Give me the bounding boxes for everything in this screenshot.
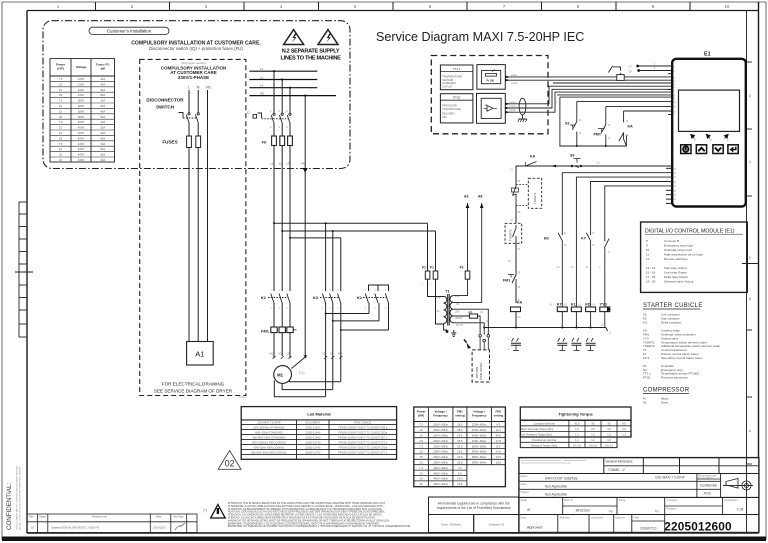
- svg-text:7.5: 7.5: [59, 120, 63, 124]
- supply bus labels: [260, 67, 264, 95]
- button down: [713, 145, 723, 154]
- svg-text:Overload motor Input: Overload motor Input: [664, 248, 692, 252]
- svg-text:Remote start/stop: Remote start/stop: [664, 257, 688, 261]
- svg-text:K1: K1: [261, 295, 267, 300]
- svg-text:K3: K3: [313, 295, 319, 300]
- power setting table: [414, 407, 506, 487]
- svg-text:400V 50Hz STANDARD: 400V 50Hz STANDARD: [255, 430, 283, 434]
- svg-text:50A: 50A: [100, 115, 105, 119]
- E1 display: [679, 90, 740, 131]
- svg-text:L1: L1: [260, 67, 264, 71]
- svg-text:19 - 20: 19 - 20: [646, 280, 656, 284]
- svg-text:40A: 40A: [100, 131, 105, 135]
- wire drops L1 L2 L3: [273, 71, 275, 113]
- svg-text:18.5: 18.5: [496, 461, 502, 465]
- svg-text:30.5: 30.5: [457, 461, 463, 465]
- svg-text:(C): (C): [480, 311, 484, 314]
- svg-text:10: 10: [725, 4, 730, 9]
- svg-text:DISCONNECTOR: DISCONNECTOR: [146, 98, 184, 103]
- svg-text:230V~50Hz: 230V~50Hz: [433, 444, 448, 448]
- title block texts: [521, 461, 586, 464]
- svg-text:230V~50Hz: 230V~50Hz: [433, 455, 448, 459]
- T1 primary bottom to ground: [444, 324, 448, 331]
- wires K3 bottom to motor terminals U2 V2 W2: [325, 303, 327, 397]
- svg-text:22050 12620: 22050 12620: [305, 425, 321, 429]
- svg-text:(*1): (*1): [299, 371, 304, 375]
- svg-text:green: green: [510, 100, 517, 104]
- svg-text:10: 10: [646, 248, 650, 252]
- svg-text:PE: PE: [302, 162, 306, 166]
- contactor K3: [313, 290, 341, 310]
- svg-text:0.5-1.6: 0.5-1.6: [589, 443, 598, 447]
- digital io module legend box: [641, 222, 748, 292]
- emergency contact on wire: [608, 66, 620, 78]
- svg-text:YY3: YY3: [600, 303, 607, 307]
- svg-text:8.5: 8.5: [496, 444, 500, 448]
- svg-text:Date: Date: [634, 515, 640, 519]
- svg-text:12: 12: [646, 257, 650, 261]
- svg-text:20: 20: [420, 482, 424, 486]
- svg-text:1.1: 1.1: [575, 438, 579, 442]
- E1 upper pin stubs: [668, 74, 672, 115]
- svg-text:Frequency: Frequency: [433, 414, 448, 418]
- svg-text:STARTER CUBICLE: STARTER CUBICLE: [643, 303, 703, 309]
- svg-text:A1: A1: [643, 401, 647, 405]
- svg-text:Designame:: Designame:: [725, 498, 739, 502]
- svg-text:Name: Name: [521, 474, 528, 478]
- svg-text:380-460V 60Hz REFLOODING: 380-460V 60Hz REFLOODING: [251, 450, 287, 454]
- cable shield: [519, 98, 526, 115]
- svg-text:Compact:: Compact:: [667, 498, 678, 502]
- svg-text:FP2/06-220/50-T-2/5CT TC-220/: FP2/06-220/50-T-2/5CT TC-220/537-273a: [339, 445, 388, 449]
- bus L2: [249, 79, 317, 81]
- svg-text:200V~50Hz: 200V~50Hz: [433, 439, 448, 443]
- svg-text:setting: setting: [494, 414, 504, 418]
- warning triangle 1: [284, 30, 304, 45]
- wire: [515, 241, 517, 272]
- svg-text:KA: KA: [628, 125, 634, 129]
- display arrows: [691, 134, 728, 138]
- svg-text:1.2: 1.2: [591, 433, 595, 437]
- fuses FU table: [50, 59, 115, 162]
- node A3 arrow: [466, 203, 470, 208]
- svg-text:TRANSDUCER: TRANSDUCER: [442, 107, 461, 111]
- wires K1 to FM1: [273, 303, 275, 327]
- option arrow: [467, 343, 472, 349]
- terminal marks: [273, 356, 343, 359]
- svg-text:16A: 16A: [100, 120, 105, 124]
- svg-text:230V: 230V: [78, 93, 85, 97]
- svg-text:10: 10: [59, 104, 63, 108]
- svg-text:2.5: 2.5: [591, 427, 595, 431]
- pressure transducer PT20: [440, 94, 473, 123]
- svg-text:15.5: 15.5: [496, 455, 502, 459]
- node junctions: [273, 70, 275, 72]
- button power: [681, 145, 691, 154]
- svg-text:M1: M1: [277, 373, 283, 378]
- svg-text:0.5-1.6: 0.5-1.6: [573, 443, 582, 447]
- svg-text:0.5-1.6: 0.5-1.6: [605, 443, 614, 447]
- temperature sensor TT1: [440, 65, 473, 90]
- svg-text:W: W: [527, 508, 530, 512]
- svg-text:Pressure transducer: Pressure transducer: [661, 376, 688, 380]
- svg-text:440V: 440V: [78, 153, 85, 157]
- svg-text:2.5mm²: 2.5mm²: [238, 395, 247, 399]
- svg-text:PDM CODICE: PDM CODICE: [355, 420, 372, 424]
- PT20 wires to E1: [505, 86, 672, 104]
- svg-text:460V~60Hz: 460V~60Hz: [433, 466, 448, 470]
- node L N PE labels: [188, 86, 211, 90]
- branch wires to delta contactor and control: [274, 222, 428, 224]
- svg-text:V1: V1: [279, 352, 283, 356]
- svg-text:400V: 400V: [78, 126, 85, 130]
- svg-text:7.5: 7.5: [458, 466, 462, 470]
- svg-text:380V~60Hz: 380V~60Hz: [472, 461, 487, 465]
- fuse FU-L3: [288, 136, 293, 146]
- svg-text:AIR: AIR: [442, 115, 447, 119]
- wire S3 line to E1: [516, 165, 672, 167]
- svg-text:15 - 16: 15 - 16: [646, 271, 656, 275]
- svg-text:requirements of the List of Pr: requirements of the List of Prohibited S…: [437, 506, 511, 510]
- svg-text:TSHHT2: TSHHT2: [509, 229, 513, 241]
- svg-text:Resistors Torque [Nm]: Resistors Torque [Nm]: [531, 443, 557, 447]
- wire drop PE: [304, 96, 306, 357]
- svg-text:400V: 400V: [78, 131, 85, 135]
- svg-text:18.0: 18.0: [457, 450, 463, 454]
- svg-text:440V: 440V: [78, 142, 85, 146]
- svg-text:8.5: 8.5: [458, 471, 462, 475]
- svg-text:Contactor terminal: Contactor terminal: [533, 422, 555, 426]
- bottom black bar: [2, 537, 766, 542]
- svg-text:200V~50Hz: 200V~50Hz: [433, 423, 448, 427]
- tap 15V to F3: [453, 279, 467, 296]
- svg-text:Emergency stop Input: Emergency stop Input: [664, 244, 693, 248]
- button enter: [728, 145, 738, 154]
- svg-text:Pt 100: Pt 100: [487, 79, 495, 82]
- svg-text:1.5: 1.5: [575, 427, 579, 431]
- svg-text:15: 15: [420, 477, 424, 481]
- svg-text:IQ: IQ: [247, 111, 250, 115]
- svg-text:16A: 16A: [100, 99, 105, 103]
- svg-text:FM1: FM1: [261, 329, 270, 334]
- svg-text:10: 10: [420, 428, 424, 432]
- TT1 symbol box: [477, 65, 505, 90]
- svg-text:20: 20: [59, 136, 63, 140]
- svg-text:Rev: Rev: [29, 515, 34, 519]
- svg-text:7.5: 7.5: [419, 466, 423, 470]
- svg-text:L1: L1: [271, 162, 275, 166]
- svg-text:11: 11: [646, 253, 649, 257]
- svg-text:Scale: Scale: [521, 498, 528, 502]
- svg-text:7.5: 7.5: [59, 77, 63, 81]
- svg-text:10: 10: [59, 126, 63, 130]
- wire L: [188, 90, 190, 113]
- svg-text:220V~60Hz: 220V~60Hz: [472, 423, 487, 427]
- svg-text:Date: Date: [156, 515, 162, 519]
- svg-text:200V~50Hz: 200V~50Hz: [433, 434, 448, 438]
- svg-text:High-temperature air-oil Input: High-temperature air-oil Input: [664, 253, 703, 257]
- svg-text:LINES TO THE MACHINE: LINES TO THE MACHINE: [280, 56, 341, 62]
- svg-text:1.2: 1.2: [622, 433, 626, 437]
- svg-text:Frequency: Frequency: [472, 414, 487, 418]
- svg-text:460V~60Hz: 460V~60Hz: [433, 477, 448, 481]
- svg-text:15: 15: [59, 131, 63, 135]
- svg-text:Delta relay Output: Delta relay Output: [664, 275, 688, 279]
- svg-text:CONFIDENTIAL:: CONFIDENTIAL:: [6, 483, 13, 530]
- svg-text:KD: KD: [544, 237, 550, 241]
- svg-text:14.0: 14.0: [457, 477, 463, 481]
- svg-text:16A: 16A: [100, 142, 105, 146]
- svg-text:KL: KL: [571, 303, 577, 307]
- surge suppressor KY: [557, 338, 567, 351]
- svg-text:B: B: [749, 297, 751, 301]
- svg-text:OUTLET: OUTLET: [442, 84, 453, 88]
- svg-text:white: white: [511, 73, 518, 77]
- disconnector switch poles: [179, 113, 200, 123]
- svg-text:02: 02: [225, 459, 235, 469]
- svg-text:F1: F1: [430, 266, 434, 270]
- svg-text:400V 50Hz REFLOODING: 400V 50Hz REFLOODING: [253, 445, 284, 449]
- svg-text:58.0: 58.0: [457, 428, 463, 432]
- svg-text:TT1 1: TT1 1: [453, 67, 461, 71]
- svg-text:TSHHT1: TSHHT1: [533, 192, 537, 204]
- svg-text:0: 0: [749, 256, 751, 260]
- E1 lower pin stubs: [666, 168, 672, 203]
- svg-text:24.5: 24.5: [457, 455, 463, 459]
- svg-text:TANK DRAIN: TANK DRAIN: [479, 363, 483, 380]
- bus L3: [249, 87, 317, 89]
- fuse FU-L2: [280, 136, 285, 146]
- projection symbol: [723, 479, 753, 493]
- S3 PMT KA contact group: [560, 96, 672, 98]
- svg-text:17.5: 17.5: [496, 439, 502, 443]
- svg-text:K2: K2: [357, 295, 363, 300]
- motor loop wires: [289, 380, 340, 382]
- wires below fuses: [273, 146, 275, 292]
- svg-text:L: L: [188, 86, 190, 90]
- wire PE: [207, 90, 209, 342]
- svg-text:in mm 100.0: in mm 100.0: [698, 476, 713, 480]
- svg-text:PMT: PMT: [594, 133, 602, 137]
- motor M1: [274, 366, 292, 384]
- svg-text:CF: CF: [629, 69, 633, 73]
- surge suppressor KD: [586, 338, 596, 351]
- svg-text:230V: 230V: [78, 77, 85, 81]
- svg-text:380V~60Hz: 380V~60Hz: [472, 444, 487, 448]
- svg-text:40A: 40A: [100, 82, 105, 86]
- svg-text:230V: 230V: [78, 82, 85, 86]
- svg-text:KA: KA: [517, 301, 523, 305]
- svg-text:DIGITAL I/O CONTROL MODULE (E: DIGITAL I/O CONTROL MODULE (E1): [645, 229, 735, 235]
- PT20 symbol box: [477, 93, 506, 123]
- top ruler ticks: [96, 2, 691, 11]
- svg-text:1.5: 1.5: [607, 438, 611, 442]
- svg-text:80A: 80A: [100, 93, 105, 97]
- svg-text:22050 12650: 22050 12650: [305, 435, 321, 439]
- disconnector IQ: [253, 113, 291, 123]
- svg-text:L2: L2: [279, 162, 283, 166]
- svg-text:Disconnector switch (IQ) + pro: Disconnector switch (IQ) + protection fu…: [149, 46, 243, 51]
- svg-text:Main Terminals Torque [Nm]: Main Terminals Torque [Nm]: [521, 427, 553, 431]
- svg-text:32A: 32A: [100, 153, 105, 157]
- svg-text:25A: 25A: [100, 147, 105, 151]
- svg-text:Common B: Common B: [664, 239, 679, 243]
- svg-text:C50 MAXI 7.5-20HP: C50 MAXI 7.5-20HP: [257, 420, 281, 424]
- svg-text:FP2/06-220/50-T-2/5CT TC-220/: FP2/06-220/50-T-2/5CT TC-220/537-243 a: [338, 425, 388, 429]
- notes text: [228, 502, 412, 528]
- svg-text:32A: 32A: [100, 77, 105, 81]
- svg-text:25A: 25A: [100, 104, 105, 108]
- svg-text:20: 20: [420, 439, 424, 443]
- svg-text:380V~60Hz: 380V~60Hz: [472, 450, 487, 454]
- svg-text:2016/1020: 2016/1020: [153, 526, 166, 530]
- svg-text:380V~60Hz: 380V~60Hz: [472, 455, 487, 459]
- coil bottom bus: [606, 328, 608, 332]
- svg-text:Line relay Output: Line relay Output: [664, 271, 687, 275]
- svg-text:22050 12720: 22050 12720: [305, 440, 321, 444]
- svg-text:440V: 440V: [78, 158, 85, 162]
- node labels at box exit: [271, 162, 306, 166]
- prohibited substances box: [429, 497, 519, 515]
- form cells: [429, 515, 519, 533]
- fuse N: [196, 136, 201, 148]
- tap 0V to A8 arrow: [453, 203, 481, 302]
- svg-text:230V/1-PHASE: 230V/1-PHASE: [178, 75, 209, 80]
- svg-text:FP2/06-220/50-T-2/5CT TC-220/: FP2/06-220/50-T-2/5CT TC-220/537-271 a: [338, 440, 388, 444]
- svg-text:15: 15: [420, 434, 424, 438]
- left fold ladder: [15, 202, 33, 337]
- svg-text:E1: E1: [704, 52, 711, 58]
- svg-text:20: 20: [59, 158, 63, 162]
- svg-text:380-460V 60Hz STANDARD: 380-460V 60Hz STANDARD: [252, 435, 285, 439]
- svg-text:N.2 SEPARATE SUPPLY: N.2 SEPARATE SUPPLY: [282, 49, 340, 55]
- svg-text:PT20: PT20: [643, 376, 651, 380]
- svg-text:brown: brown: [511, 81, 519, 85]
- connector pins to tank drain: [479, 335, 490, 350]
- svg-text:THIS DOCUMENT AND ITS CONTENTS: THIS DOCUMENT AND ITS CONTENTS ARE PROPE…: [16, 465, 19, 530]
- svg-text:(C): (C): [486, 320, 490, 323]
- control feed wires to F1 fuses: [427, 223, 429, 271]
- svg-text:C.M: C.M: [737, 508, 743, 512]
- svg-text:7.5: 7.5: [419, 444, 423, 448]
- svg-text:10: 10: [420, 450, 424, 454]
- svg-text:440V~60Hz: 440V~60Hz: [472, 428, 487, 432]
- tightening torque table: [520, 407, 631, 448]
- right ruler ticks: [742, 62, 759, 464]
- svg-text:460V~60Hz: 460V~60Hz: [433, 482, 448, 486]
- svg-text:22050 12640: 22050 12640: [305, 430, 321, 434]
- svg-text:440V~60Hz: 440V~60Hz: [472, 434, 487, 438]
- svg-text:Revision text: Revision text: [92, 515, 107, 519]
- svg-text:Kg: Kg: [655, 509, 659, 513]
- warning triangle 2: [318, 30, 338, 45]
- svg-text:ВНИМАНИЕ, НА ТАБЕЛКАТА СЕ СПАЗ: ВНИМАНИЕ, НА ТАБЕЛКАТА СЕ СПАЗВАТ ЧЕСТОТ…: [228, 525, 412, 528]
- svg-text:7.5: 7.5: [59, 99, 63, 103]
- delta link wires K2 bottom to K3 columns: [368, 303, 370, 314]
- svg-text:FM1: FM1: [503, 279, 510, 283]
- svg-text:15: 15: [59, 88, 63, 92]
- svg-text:AIRXXXCAT DataPlate: AIRXXXCAT DataPlate: [545, 477, 578, 481]
- wire: [515, 206, 517, 223]
- svg-text:50A: 50A: [100, 136, 105, 140]
- svg-text:F3: F3: [460, 266, 464, 270]
- svg-text:white: white: [510, 108, 517, 112]
- svg-text:All materials supplied are in: All materials supplied are in compliance…: [438, 502, 510, 506]
- svg-text:440V: 440V: [78, 147, 85, 151]
- svg-text:230V~50Hz: 230V~50Hz: [433, 461, 448, 465]
- svg-text:17 - 18: 17 - 18: [646, 275, 656, 279]
- svg-text:brown: brown: [510, 104, 518, 108]
- sensor dashed box: [431, 56, 548, 134]
- svg-text:U1: U1: [287, 352, 291, 356]
- top ruler numbers: [57, 4, 730, 9]
- svg-text:380V: 380V: [78, 109, 85, 113]
- svg-text:10: 10: [59, 147, 63, 151]
- ground: [446, 330, 449, 333]
- signature squiggle: [175, 523, 185, 530]
- list material table: [241, 407, 396, 460]
- svg-text:22050 12750: 22050 12750: [305, 450, 321, 454]
- svg-text:Hims:: Hims:: [521, 482, 528, 486]
- TT1 wires to E1: [505, 76, 672, 78]
- svg-text:24.5: 24.5: [457, 434, 463, 438]
- svg-text:45.0: 45.0: [496, 434, 502, 438]
- svg-text:CSD MAXI 7.5-20HP: CSD MAXI 7.5-20HP: [655, 476, 685, 480]
- svg-text:8.5: 8.5: [496, 423, 500, 427]
- svg-text:Ver./Appr.: Ver./Appr.: [173, 515, 185, 519]
- svg-text:A3: A3: [464, 195, 468, 199]
- svg-text:Non Applicabile: Non Applicabile: [545, 492, 567, 496]
- svg-text:Tightening Torque: Tightening Torque: [558, 412, 594, 417]
- svg-text:PE: PE: [206, 86, 211, 90]
- svg-text:460V~60Hz: 460V~60Hz: [433, 471, 448, 475]
- svg-text:13 - 14: 13 - 14: [646, 266, 656, 270]
- svg-text:F1: F1: [422, 266, 426, 270]
- svg-text:14.0: 14.0: [496, 450, 502, 454]
- svg-text:Date: Date: [521, 515, 527, 519]
- svg-text:Customer's Installation: Customer's Installation: [107, 29, 152, 34]
- svg-text:Contracted: Contracted: [591, 515, 604, 519]
- svg-text:380V: 380V: [78, 99, 85, 103]
- svg-text:15: 15: [59, 153, 63, 157]
- node A8 arrow: [480, 203, 484, 208]
- svg-text:1.2: 1.2: [575, 433, 579, 437]
- svg-text:FU: FU: [262, 141, 267, 145]
- svg-text:[HP]: [HP]: [57, 67, 63, 71]
- svg-text:A8: A8: [478, 195, 482, 199]
- dryer control box A1: [187, 342, 214, 366]
- svg-text:10: 10: [420, 471, 424, 475]
- svg-text:FP2/06-220/50-T-2/5CT TC-220/: FP2/06-220/50-T-2/5CT TC-220/537-277.2: [338, 450, 388, 454]
- thermostat TSHHT1: [512, 184, 519, 207]
- svg-text:1.2: 1.2: [607, 433, 611, 437]
- svg-text:CT: CT: [629, 65, 633, 69]
- button up: [696, 145, 706, 154]
- svg-text:NOT BE COPIED OR DISCLOSED WIT: NOT BE COPIED OR DISCLOSED WITHOUT WRITT…: [20, 466, 22, 530]
- svg-text:40A: 40A: [100, 109, 105, 113]
- svg-text:Form: DS/Italic: Form: DS/Italic: [441, 523, 461, 527]
- svg-text:FP2/06-220/50-T-2/5CT TC-220/: FP2/06-220/50-T-2/5CT TC-220/537-257.2: [338, 435, 388, 439]
- svg-text:20: 20: [420, 461, 424, 465]
- svg-text:Non Applicabile: Non Applicabile: [545, 484, 567, 488]
- svg-text:Replace:: Replace:: [667, 506, 678, 510]
- svg-text:KA: KA: [530, 155, 536, 159]
- svg-text:DOCUMENT: DOCUMENT: [305, 420, 320, 424]
- svg-text:Solenoid valve Output: Solenoid valve Output: [664, 280, 694, 284]
- option tank drain box: [472, 350, 489, 382]
- svg-text:380V: 380V: [78, 115, 85, 119]
- svg-text:T1: T1: [445, 289, 450, 294]
